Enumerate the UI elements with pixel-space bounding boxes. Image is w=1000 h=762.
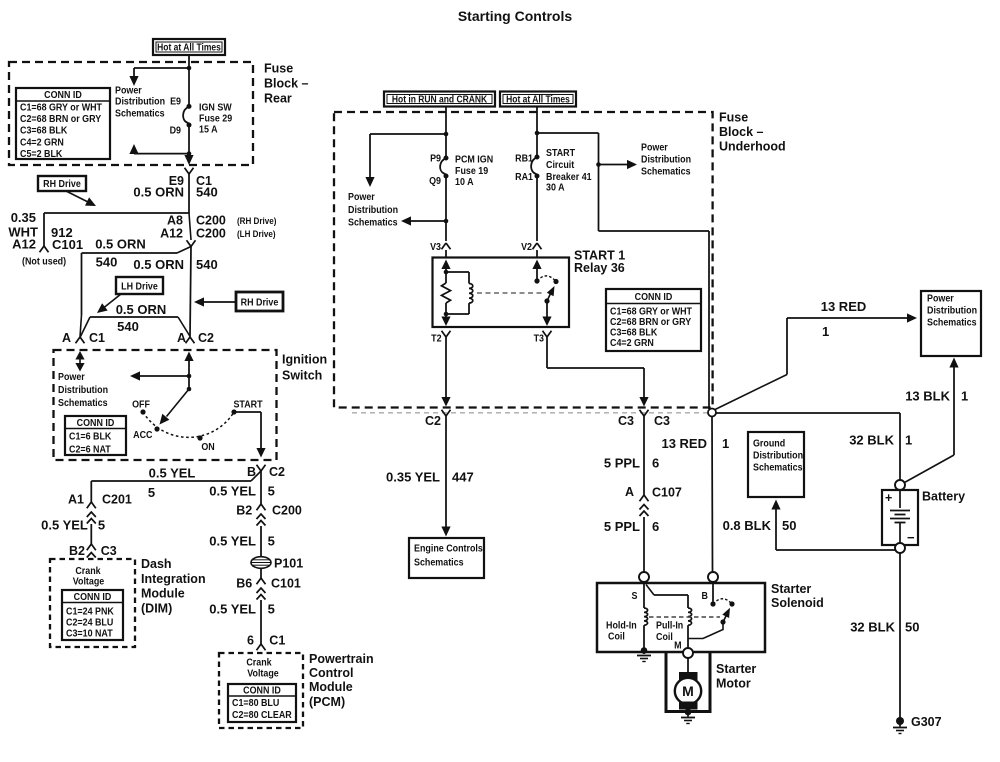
wire into relay [445, 250, 447, 258]
svg-text:540: 540 [96, 255, 118, 270]
connector A/C1 [76, 337, 81, 343]
svg-text:Hot at All Times: Hot at All Times [506, 94, 570, 105]
svg-text:(PCM): (PCM) [309, 695, 345, 709]
box: Power Distribution Schematics (right) [921, 291, 981, 356]
connector C2 (underhood bottom) [442, 410, 447, 416]
svg-text:C5=2 BLK: C5=2 BLK [20, 148, 62, 160]
svg-text:5 PPL: 5 PPL [604, 456, 640, 471]
svg-text:CONN ID: CONN ID [44, 89, 82, 101]
wire: T3 down and right to C3 [546, 337, 548, 368]
motor ground [685, 709, 692, 716]
svg-text:PCM IGN: PCM IGN [455, 154, 493, 166]
wire: branch to C101 (RH drive) [44, 212, 189, 214]
wire: node to battery positive [716, 412, 900, 414]
starter motor housing [665, 652, 668, 712]
wire: below fuse to branch [188, 127, 190, 154]
svg-text:Starter: Starter [716, 662, 756, 676]
junction node (left branch) [444, 132, 449, 137]
svg-text:Rear: Rear [264, 91, 292, 105]
box: Engine Controls Schematics [409, 538, 484, 578]
CONN ID table (underhood) [606, 289, 701, 351]
solenoid S terminal [639, 572, 649, 582]
svg-text:C200: C200 [272, 504, 302, 518]
svg-text:Switch: Switch [282, 369, 322, 383]
wire segment to P101 [260, 526, 262, 557]
svg-text:C4=2 GRN: C4=2 GRN [20, 137, 64, 149]
contact ACC [154, 426, 159, 431]
arrow right to power distribution schematics [599, 164, 628, 166]
svg-text:(RH Drive): (RH Drive) [237, 215, 276, 226]
svg-text:Distribution: Distribution [58, 385, 108, 397]
DIM dashed box [50, 559, 135, 647]
svg-text:540: 540 [196, 185, 218, 200]
svg-text:540: 540 [117, 319, 139, 334]
svg-text:V3: V3 [430, 241, 441, 253]
wire: branch to power distribution schematics (bottom) [134, 153, 189, 155]
svg-text:6: 6 [652, 456, 659, 471]
hold-in coil ground [641, 647, 648, 654]
svg-text:Power: Power [348, 191, 375, 203]
svg-text:A12: A12 [160, 227, 183, 241]
svg-text:RH Drive: RH Drive [43, 178, 81, 190]
wire: switch to M terminal [688, 622, 723, 639]
svg-text:Circuit: Circuit [546, 160, 575, 172]
relay T2 exit arrow [445, 314, 447, 318]
battery box [882, 490, 918, 545]
svg-text:CONN ID: CONN ID [74, 591, 112, 603]
CONN ID table (DIM) [62, 590, 123, 640]
wire: lower branch 0.5 ORN 540 [90, 316, 178, 318]
label box: Hot in RUN and CRANK [384, 92, 495, 107]
svg-text:Coil: Coil [608, 631, 625, 643]
svg-text:0.5 ORN: 0.5 ORN [133, 257, 184, 272]
svg-text:Schematics: Schematics [348, 217, 398, 229]
svg-text:Power: Power [115, 85, 142, 97]
svg-text:C2=6 NAT: C2=6 NAT [69, 444, 111, 456]
svg-text:Power: Power [58, 371, 85, 383]
svg-text:0.5 ORN: 0.5 ORN [133, 185, 184, 200]
svg-text:T2: T2 [431, 333, 442, 345]
ground G307 [896, 717, 904, 725]
wire 13 RED 1 node to solenoid B [711, 417, 714, 573]
svg-text:(DIM): (DIM) [141, 601, 172, 615]
callout box RH Drive (lower) with arrow [236, 292, 283, 311]
relay switch dashed travel arc [537, 276, 556, 282]
wire: run/crank feed down to fuse 19 [445, 106, 447, 158]
svg-text:1: 1 [822, 324, 829, 339]
connector A12/C101 (not used) [40, 246, 45, 252]
svg-text:540: 540 [196, 257, 218, 272]
PCM dashed box [219, 653, 303, 728]
wire: branch at 253 to left vertical [177, 247, 191, 254]
connector 6/C1 (PCM) [257, 644, 262, 650]
connector T2 [442, 331, 447, 337]
svg-text:Schematics: Schematics [753, 462, 803, 474]
solenoid switch fixed contact (B) [712, 582, 714, 602]
wire M terminal to motor [687, 658, 689, 673]
rotor arrow toward ACC [167, 389, 190, 417]
svg-text:C2: C2 [269, 465, 285, 479]
svg-text:Solenoid: Solenoid [771, 596, 824, 610]
junction node to left arrow [187, 374, 192, 379]
contact OFF [140, 409, 145, 414]
svg-text:Schematics: Schematics [927, 317, 977, 329]
svg-text:Motor: Motor [716, 676, 751, 690]
wire: START output to B/C2 [234, 411, 261, 413]
svg-text:Power: Power [641, 142, 668, 154]
connector C200 RH/LH drive on main feed [189, 213, 191, 240]
svg-text:Coil: Coil [656, 631, 673, 643]
svg-text:T3: T3 [534, 333, 545, 345]
CONN ID table (PCM) [228, 684, 296, 722]
wire: down to DIM [90, 524, 92, 544]
svg-text:Control: Control [309, 666, 353, 680]
svg-text:Q9: Q9 [429, 175, 441, 187]
junction node at bottom branch [187, 151, 192, 156]
svg-text:13 BLK: 13 BLK [905, 389, 950, 404]
svg-text:15 A: 15 A [199, 124, 218, 136]
svg-text:10 A: 10 A [455, 176, 474, 188]
label box: Hot at All Times (underhood) [500, 92, 576, 107]
svg-text:C3=10 NAT: C3=10 NAT [66, 628, 113, 640]
svg-text:32 BLK: 32 BLK [850, 620, 895, 635]
svg-text:Hot in RUN and CRANK: Hot in RUN and CRANK [392, 94, 488, 105]
svg-text:C2=80 CLEAR: C2=80 CLEAR [232, 710, 292, 722]
svg-text:Hot at All Times: Hot at All Times [157, 42, 221, 53]
svg-text:Starter: Starter [771, 582, 811, 596]
svg-text:V2: V2 [521, 241, 532, 253]
svg-text:Schematics: Schematics [641, 166, 691, 178]
solenoid switch NO contact [729, 601, 734, 606]
svg-text:0.5 YEL: 0.5 YEL [149, 466, 196, 481]
svg-text:C101: C101 [52, 237, 83, 252]
svg-text:(Not used): (Not used) [22, 256, 66, 268]
svg-text:A: A [625, 485, 634, 499]
svg-text:Block –: Block – [264, 76, 309, 90]
wire 13 BLK 1 battery to schematics [949, 358, 958, 368]
svg-text:Pull-In: Pull-In [656, 620, 683, 632]
relay coil terminal arrow (V3) [441, 260, 450, 270]
svg-text:P101: P101 [274, 557, 303, 571]
svg-text:C201: C201 [102, 493, 132, 507]
svg-text:5 PPL: 5 PPL [604, 519, 640, 534]
svg-text:6: 6 [247, 633, 254, 647]
wire 5 PPL 6 upper segment [643, 416, 645, 495]
solenoid B terminal [708, 572, 718, 582]
connector E9/C1 [185, 168, 190, 174]
svg-text:Dash: Dash [141, 557, 172, 571]
svg-text:C1=6 BLK: C1=6 BLK [69, 431, 111, 443]
junction node (right branch) [535, 131, 540, 136]
svg-text:A: A [62, 331, 71, 345]
svg-text:C2=68 BRN or GRY: C2=68 BRN or GRY [20, 113, 102, 125]
svg-text:5: 5 [98, 518, 105, 533]
wire: main orange feed down [188, 174, 190, 214]
svg-text:1: 1 [905, 432, 912, 447]
svg-text:C3=68 BLK: C3=68 BLK [20, 125, 67, 137]
svg-text:Distribution: Distribution [641, 154, 691, 166]
svg-text:D9: D9 [170, 125, 182, 137]
svg-text:B2: B2 [69, 544, 85, 558]
junction node to rotor arrow [187, 387, 192, 392]
wire: branch continues to node [599, 230, 710, 232]
relay switch pivot [544, 298, 549, 303]
connector B2/C200 [257, 504, 262, 510]
wire: hot at all times feed down to breaker [536, 106, 538, 157]
junction node (schematics arrow) [444, 219, 449, 224]
svg-text:START: START [546, 147, 575, 159]
svg-text:5: 5 [268, 602, 275, 617]
battery positive terminal [895, 480, 905, 490]
svg-text:B: B [702, 590, 708, 602]
svg-text:Fuse: Fuse [264, 61, 293, 75]
svg-text:13 RED: 13 RED [821, 299, 867, 314]
svg-text:RB1: RB1 [515, 153, 533, 165]
solenoid switch blade with arrow [723, 614, 727, 622]
svg-text:G307: G307 [911, 715, 942, 729]
svg-text:50: 50 [782, 518, 796, 533]
relay mechanical dashed link [477, 292, 544, 294]
svg-text:S: S [632, 590, 638, 602]
junction node on branch [596, 162, 601, 167]
fuse PCM IGN Fuse 19 10 A [444, 156, 449, 161]
svg-text:C3: C3 [654, 414, 670, 428]
svg-text:C107: C107 [652, 486, 682, 500]
wire 5 PPL 6 lower segment [643, 517, 645, 572]
connector V2 [533, 243, 538, 249]
svg-text:Module: Module [141, 586, 185, 600]
svg-text:C4=2 GRN: C4=2 GRN [610, 337, 654, 349]
svg-text:ACC: ACC [133, 429, 152, 441]
fuse block underhood dashed box [334, 112, 713, 408]
connector B/C2 [257, 465, 262, 471]
fuse block rear dashed box [9, 62, 253, 165]
svg-text:+: + [885, 491, 892, 505]
svg-text:Voltage: Voltage [73, 576, 105, 588]
svg-text:C1=80 BLU: C1=80 BLU [232, 698, 279, 710]
contact ON [197, 435, 202, 440]
arrow from LH Drive callout [104, 294, 121, 308]
starter solenoid box [597, 583, 765, 652]
wire 0.35 YEL 447 to engine controls [445, 416, 447, 527]
wire: diagonal to 13 RED run [715, 375, 787, 410]
arrow left to power distribution schematics [411, 220, 446, 222]
splice P101 [251, 557, 271, 569]
solenoid switch dashed travel arc [713, 599, 732, 604]
wire: branch left to power distribution schematics [370, 133, 446, 135]
svg-text:Starting Controls: Starting Controls [458, 8, 573, 24]
svg-text:C2: C2 [425, 414, 441, 428]
svg-text:A8: A8 [167, 214, 183, 228]
svg-text:Distribution: Distribution [348, 205, 398, 217]
svg-text:0.5 YEL: 0.5 YEL [209, 484, 256, 499]
connector A1/C201 [87, 502, 92, 508]
svg-text:Powertrain: Powertrain [309, 652, 374, 666]
node: splice ring at fuse block corner [708, 409, 716, 417]
svg-text:0.5 YEL: 0.5 YEL [209, 602, 256, 617]
wire 32 BLK 50 battery to G307 [899, 553, 901, 718]
callout box LH Drive [116, 277, 163, 294]
svg-text:C1: C1 [89, 331, 105, 345]
arrow left (power distribution schematics) [140, 375, 189, 377]
relay coil bottom junction [444, 312, 449, 317]
svg-text:Schematics: Schematics [414, 557, 464, 569]
svg-text:Ground: Ground [753, 438, 785, 450]
wire 0.8 BLK 50 to ground distribution [776, 549, 895, 551]
fuse IGN SW Fuse 29 15 A [187, 104, 192, 109]
wire: hot-at-all-times feed down to fuse 29 [188, 55, 190, 104]
label box: Hot at All Times (rear) [153, 39, 225, 55]
wire: yellow crank voltage to PCM [260, 471, 262, 504]
callout box RH Drive (upper) [38, 176, 86, 191]
wire to PCM [260, 600, 262, 644]
svg-text:5: 5 [268, 534, 275, 549]
svg-text:Power: Power [927, 293, 954, 305]
svg-text:−: − [907, 530, 915, 545]
double arrow to power distribution schematics [75, 351, 84, 360]
hold-in coil wire [643, 582, 645, 608]
battery negative terminal [895, 543, 905, 553]
svg-text:13 RED: 13 RED [661, 436, 707, 451]
svg-text:ON: ON [201, 442, 214, 454]
wire: breaker output down [536, 178, 538, 241]
svg-text:Distribution: Distribution [927, 305, 977, 317]
svg-text:LH Drive: LH Drive [121, 281, 158, 293]
relay switch common (V2) [532, 260, 541, 270]
arrow from RH Drive callout [66, 191, 89, 203]
svg-text:447: 447 [452, 470, 474, 485]
svg-text:0.5 ORN: 0.5 ORN [95, 237, 146, 252]
wire: yellow crank voltage horizontal run [251, 471, 261, 481]
svg-text:1: 1 [961, 389, 968, 404]
svg-text:RH Drive: RH Drive [241, 297, 279, 309]
arrow up (power distribution schematics) [129, 144, 138, 154]
box: Ground Distribution Schematics [748, 432, 804, 497]
wire: T2 down to C2 [445, 337, 447, 397]
hold-in coil [644, 608, 648, 625]
arrow down (power distribution schematics) [133, 68, 135, 77]
svg-text:C1=68 GRY or WHT: C1=68 GRY or WHT [20, 102, 102, 114]
connector B2/C3 [87, 544, 92, 550]
svg-text:0.5 YEL: 0.5 YEL [41, 518, 88, 533]
inner gray dashed line at bottom [352, 412, 708, 414]
svg-text:Module: Module [309, 680, 353, 694]
svg-text:0.5 ORN: 0.5 ORN [116, 302, 167, 317]
svg-text:CONN ID: CONN ID [77, 417, 115, 429]
svg-text:Ignition: Ignition [282, 353, 327, 367]
connector B6/C101 [257, 578, 262, 584]
svg-text:Underhood: Underhood [719, 140, 786, 154]
motor armature circle M [675, 678, 701, 704]
svg-text:E9: E9 [170, 96, 181, 108]
wire S to pull-in coil [646, 585, 654, 596]
svg-text:Fuse: Fuse [719, 111, 748, 125]
svg-text:32 BLK: 32 BLK [849, 432, 894, 447]
svg-text:CONN ID: CONN ID [243, 685, 281, 697]
connector V3 [442, 243, 447, 249]
relay coil top junction [444, 270, 449, 275]
svg-text:Schematics: Schematics [115, 108, 165, 120]
svg-text:Voltage: Voltage [247, 668, 279, 680]
svg-text:C101: C101 [271, 577, 301, 591]
relay coil (inductor) [446, 271, 469, 273]
CONN ID table (fuse block rear) [16, 88, 110, 159]
svg-text:A: A [177, 331, 186, 345]
svg-text:30 A: 30 A [546, 182, 565, 194]
CONN ID table (ignition switch) [65, 416, 126, 455]
svg-text:C3: C3 [101, 544, 117, 558]
svg-text:Engine Controls: Engine Controls [414, 543, 483, 555]
svg-text:C1: C1 [269, 633, 285, 647]
wire: fuse 19 output down [445, 178, 447, 241]
svg-text:Battery: Battery [922, 490, 965, 504]
svg-text:A12: A12 [12, 237, 36, 252]
svg-text:0.35: 0.35 [11, 210, 36, 225]
svg-text:Integration: Integration [141, 572, 206, 586]
svg-text:P9: P9 [430, 153, 441, 165]
relay switch NO contact [553, 279, 558, 284]
rotary dashed arc OFF-ACC-ON-START [143, 412, 234, 437]
connector T3 [543, 331, 548, 337]
svg-text:0.5 YEL: 0.5 YEL [209, 534, 256, 549]
solenoid mechanical dashed link [649, 616, 720, 618]
relay resistor [445, 272, 447, 283]
connector A/C2 [186, 337, 191, 343]
wire: branch right to power distribution schematics [537, 132, 599, 134]
svg-text:B6: B6 [236, 577, 252, 591]
svg-text:Hold-In: Hold-In [606, 620, 637, 632]
circuit breaker 41 START 30 A [535, 155, 540, 160]
svg-text:0.35 YEL: 0.35 YEL [386, 470, 440, 485]
ignition switch dashed box [54, 350, 277, 460]
contact START [231, 409, 236, 414]
svg-text:M: M [674, 640, 681, 652]
svg-text:1: 1 [722, 436, 729, 451]
svg-text:C2: C2 [198, 331, 214, 345]
svg-text:CONN ID: CONN ID [635, 291, 673, 303]
svg-text:0.8 BLK: 0.8 BLK [723, 518, 772, 533]
relay T3 exit arrow [546, 301, 548, 318]
svg-text:Distribution: Distribution [115, 96, 165, 108]
relay switch blade with arrow [547, 292, 552, 302]
svg-text:50: 50 [905, 620, 919, 635]
svg-text:C200: C200 [196, 214, 226, 228]
svg-text:C3: C3 [618, 414, 634, 428]
svg-text:OFF: OFF [132, 399, 150, 411]
motor brush (top) [680, 673, 698, 680]
wire: branch to power distribution schematics (top) [134, 67, 189, 69]
connector C3/C3 (underhood bottom) [640, 410, 645, 416]
motor brush (bottom) [680, 702, 698, 709]
svg-text:Schematics: Schematics [58, 398, 108, 410]
relay box START 1 Relay 36 [433, 258, 570, 328]
svg-text:6: 6 [652, 519, 659, 534]
svg-text:Fuse 19: Fuse 19 [455, 165, 489, 177]
connector A/C107 [640, 495, 645, 501]
solenoid switch pivot [720, 619, 725, 624]
pull-in coil [688, 608, 692, 625]
svg-text:M: M [682, 683, 694, 699]
wire 13 RED 1 to power distribution schematics [787, 317, 907, 319]
svg-text:Distribution: Distribution [753, 450, 803, 462]
svg-text:Relay 36: Relay 36 [574, 261, 625, 275]
svg-text:5: 5 [268, 484, 275, 499]
svg-text:RA1: RA1 [515, 171, 533, 183]
svg-text:(LH Drive): (LH Drive) [237, 228, 276, 239]
svg-text:B2: B2 [236, 504, 252, 518]
junction node at top branch [187, 66, 192, 71]
svg-text:5: 5 [148, 485, 155, 500]
